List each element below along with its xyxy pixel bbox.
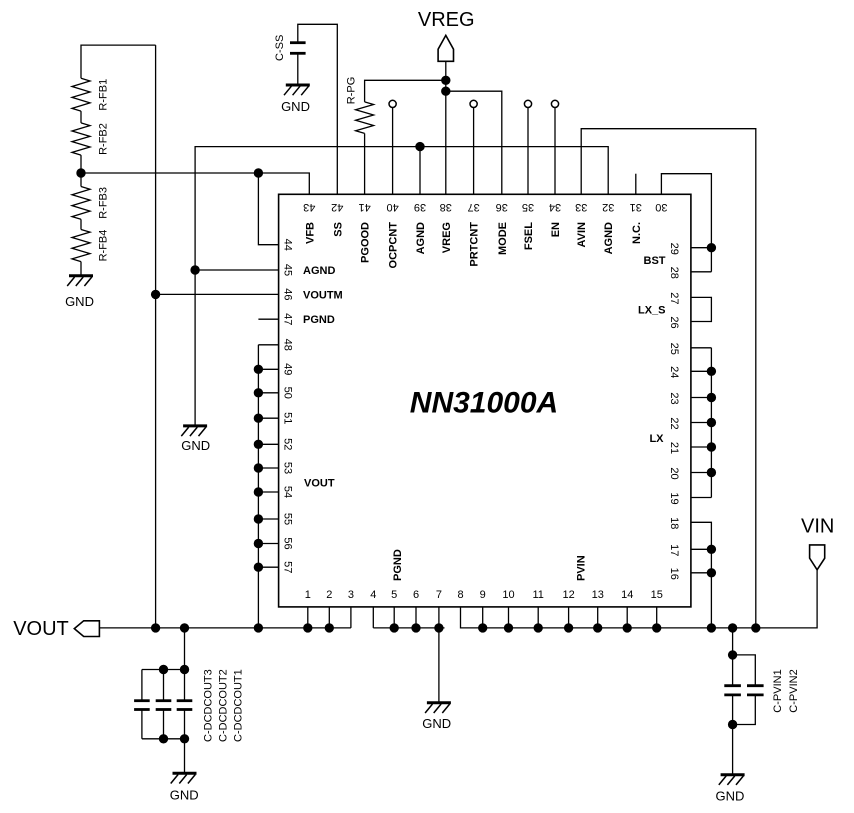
svg-text:32: 32 — [602, 201, 614, 213]
wire C-DCDCOUT bank to ground — [184, 739, 186, 774]
wire VOUT vertical feed (node VOUT riser) — [155, 45, 157, 628]
resistor R-FB2 — [72, 123, 90, 155]
svg-text:41: 41 — [358, 201, 370, 213]
wire pin 46 VOUTM to VOUT riser — [156, 293, 279, 295]
junction: pin 2 / VOUT rail — [325, 624, 333, 632]
svg-text:GND: GND — [170, 787, 199, 802]
svg-text:PGND: PGND — [303, 314, 335, 326]
wire R-PG top to VREG node — [365, 80, 446, 102]
wire pin 17 stub — [691, 548, 712, 550]
wire C-SS bottom to ground — [297, 53, 299, 85]
svg-text:25: 25 — [668, 343, 680, 355]
terminal VREG (supply flag) — [438, 35, 453, 61]
wire C-PVIN2 bottom bracket — [733, 695, 756, 725]
wire pin 34 EN stub — [554, 108, 556, 195]
svg-text:SS: SS — [332, 222, 344, 237]
wire pin 3 drop to VOUT rail — [350, 607, 352, 628]
svg-text:C-SS: C-SS — [274, 35, 286, 61]
svg-text:45: 45 — [282, 264, 294, 276]
open terminal circle above pin 37 PRTCNT — [470, 100, 477, 107]
wire VREG terminal down to pin 38 VREG — [445, 61, 447, 194]
wire pin 25 LX stub — [691, 347, 712, 349]
wire pin 41 PGOOD up to R-PG — [364, 133, 366, 194]
wire VOUT rail (terminal to pin 3) — [99, 627, 351, 629]
svg-text:50: 50 — [282, 387, 294, 399]
svg-text:N.C.: N.C. — [631, 222, 643, 244]
wire pin 39 AGND drop from AGND run — [419, 147, 421, 195]
junction: pin 11 / PVIN rail — [534, 624, 542, 632]
junction: pin 5 / PGND rail — [390, 624, 398, 632]
junction: VREG / MODE branch — [442, 87, 450, 95]
wire pin 24 LX stub — [691, 370, 712, 372]
svg-text:VOUTM: VOUTM — [303, 289, 343, 301]
svg-text:57: 57 — [282, 561, 294, 573]
svg-text:17: 17 — [668, 544, 680, 556]
svg-text:GND: GND — [65, 294, 94, 309]
junction: pin 56 / VOUT bus — [254, 539, 262, 547]
wire pin 56 VOUT stub — [258, 543, 278, 545]
junction: C-PVIN2 branch top — [728, 651, 736, 659]
junction: VOUT riser / VOUT rail — [151, 624, 159, 632]
svg-text:R-FB3: R-FB3 — [97, 187, 109, 219]
svg-text:15: 15 — [651, 589, 663, 601]
svg-text:29: 29 — [668, 243, 680, 255]
junction: VOUTM / VOUT riser — [151, 290, 159, 298]
svg-text:11: 11 — [532, 589, 543, 601]
svg-text:3: 3 — [348, 589, 354, 601]
wire PGND rail (pins 4-7) — [373, 627, 444, 629]
wire VOUT rail down to C-DCDCOUT bank — [184, 628, 186, 670]
junction: pin 16 / PVIN stub bus — [707, 569, 715, 577]
capacitor C-PVIN2 — [747, 684, 764, 687]
svg-text:23: 23 — [668, 392, 680, 404]
svg-text:VOUT: VOUT — [304, 478, 335, 490]
resistor R-FB4 — [72, 230, 90, 262]
junction: pin 51 / VOUT bus — [254, 414, 262, 422]
svg-text:9: 9 — [480, 589, 486, 601]
wire pin 48 VOUT stub — [258, 344, 278, 346]
wire pin 33 AVIN up-right and down to VIN rail — [581, 129, 756, 628]
wire pin 29 stub to BST bus — [691, 247, 712, 249]
svg-text:LX_S: LX_S — [638, 305, 666, 317]
svg-text:C-DCDCOUT3: C-DCDCOUT3 — [203, 669, 215, 742]
svg-text:VFB: VFB — [304, 222, 316, 244]
junction: pin 20 / LX bus — [707, 468, 715, 476]
open terminal circle above pin 40 OCPCNT — [389, 100, 396, 107]
wire pin 13 drop to PVIN rail — [597, 607, 599, 628]
svg-text:24: 24 — [668, 366, 680, 378]
ground under C-DCDCOUT bank — [173, 772, 197, 775]
junction: pin 21 / LX bus — [707, 443, 715, 451]
open terminal circle above pin 34 EN — [551, 100, 558, 107]
svg-text:AVIN: AVIN — [576, 222, 588, 248]
junction: C-DCDCOUT feed / VOUT rail — [180, 624, 188, 632]
wire VIN rail down to C-PVIN pair — [732, 628, 734, 686]
junction: pin 44 bracket / VFB line — [254, 169, 262, 177]
wire C-PVIN1 bottom to ground — [732, 695, 734, 775]
capacitor C-DCDCOUT1 (right column) — [184, 670, 186, 701]
svg-text:AGND: AGND — [603, 222, 615, 254]
junction: pin 29 / BST bus — [707, 244, 715, 252]
svg-text:48: 48 — [282, 339, 294, 351]
svg-text:C-DCDCOUT1: C-DCDCOUT1 — [233, 669, 245, 742]
junction: pin 10 / PVIN rail — [504, 624, 512, 632]
svg-text:52: 52 — [282, 438, 294, 450]
junction: C-PVIN feed / PVIN rail — [728, 624, 736, 632]
svg-text:8: 8 — [457, 589, 463, 601]
terminal VOUT (output flag) — [74, 621, 99, 637]
svg-text:VREG: VREG — [441, 222, 453, 253]
capacitor C-PVIN1 — [724, 684, 741, 687]
wire top of R-FB1 to VOUT vertical feed — [81, 45, 156, 78]
svg-text:40: 40 — [386, 201, 398, 213]
wire R-FB4 to ground — [80, 262, 82, 276]
wire pin 20 LX stub — [691, 472, 712, 474]
wire pin 45 AGND to AGND riser — [195, 269, 279, 271]
junction: pin 6 / PGND rail — [412, 624, 420, 632]
svg-text:54: 54 — [282, 486, 294, 498]
svg-text:26: 26 — [668, 316, 680, 328]
svg-text:R-FB2: R-FB2 — [97, 123, 109, 155]
IC U1 NN31000A body outline — [279, 194, 691, 607]
wire pin 55 VOUT stub — [258, 518, 278, 520]
wire pin 6 drop to PGND rail — [415, 607, 417, 628]
wire pin 40 OCPCNT stub — [392, 108, 394, 195]
wire C-PVIN2 top bracket — [733, 655, 756, 686]
junction: C-DCDCOUT1 bottom — [180, 735, 188, 743]
wire pin 9 drop to PVIN rail — [482, 607, 484, 628]
junction: pins 16-18 stub bus / PVIN rail — [707, 624, 715, 632]
svg-text:EN: EN — [550, 222, 562, 237]
junction: pin 49 / VOUT bus — [254, 365, 262, 373]
junction: feedback tap on R-FB2/R-FB3 divider — [77, 169, 85, 177]
svg-text:GND: GND — [281, 99, 310, 114]
svg-text:22: 22 — [668, 417, 680, 429]
junction: pin 7 / PGND rail — [435, 624, 443, 632]
wire pin 51 VOUT stub — [258, 417, 278, 419]
svg-text:34: 34 — [549, 201, 561, 213]
terminal VIN (supply flag) — [810, 545, 825, 570]
svg-text:20: 20 — [668, 467, 680, 479]
svg-text:2: 2 — [326, 589, 332, 601]
wire pin 12 drop to PVIN rail — [568, 607, 570, 628]
wire pin 50 VOUT stub — [258, 392, 278, 394]
wire pin 54 VOUT stub — [258, 491, 278, 493]
wire pin 43 VFB up-left to feedback node (R-FB2/R-FB3 tap line) — [81, 173, 309, 194]
svg-text:GND: GND — [715, 788, 744, 803]
wire R-FB1 to R-FB2 — [80, 111, 82, 123]
wire pin 27 LX_S stub and loop to pin 26 — [691, 297, 712, 321]
svg-text:C-DCDCOUT2: C-DCDCOUT2 — [218, 669, 230, 742]
wire pin 4 drop to PGND rail — [372, 607, 374, 628]
svg-text:39: 39 — [414, 201, 426, 213]
capacitor C-DCDCOUT2 (middle column) — [163, 670, 165, 701]
svg-text:4: 4 — [370, 589, 376, 601]
svg-text:53: 53 — [282, 462, 294, 474]
ground at bottom of AGND riser — [183, 424, 207, 427]
svg-text:47: 47 — [282, 313, 294, 325]
svg-text:31: 31 — [630, 201, 642, 213]
svg-text:5: 5 — [391, 589, 397, 601]
wire pin 21 LX stub — [691, 446, 712, 448]
junction: pin 53 / VOUT bus — [254, 464, 262, 472]
wire pin 57 VOUT stub — [258, 566, 278, 568]
svg-text:18: 18 — [668, 517, 680, 529]
junction: C-DCDCOUT2 bottom — [159, 735, 167, 743]
svg-text:12: 12 — [562, 589, 574, 601]
junction: pin 39 AGND / AGND run — [416, 142, 424, 150]
svg-text:21: 21 — [668, 442, 680, 454]
wire R-FB3 to R-FB4 — [80, 219, 82, 229]
wire C-SS top to pin 42 SS — [298, 24, 338, 194]
junction: AVIN riser / PVIN rail — [752, 624, 760, 632]
wire pin 49 VOUT stub — [258, 368, 278, 370]
svg-text:7: 7 — [436, 589, 442, 601]
svg-text:GND: GND — [181, 438, 210, 453]
svg-text:36: 36 — [496, 201, 508, 213]
svg-text:R-PG: R-PG — [346, 77, 358, 105]
svg-text:35: 35 — [522, 201, 534, 213]
svg-text:C-PVIN1: C-PVIN1 — [772, 669, 784, 712]
junction: pin 12 / PVIN rail — [564, 624, 572, 632]
wire VREG node to pin 36 MODE — [446, 91, 502, 194]
svg-text:46: 46 — [282, 288, 294, 300]
junction: pin 24 / LX bus — [707, 367, 715, 375]
junction: C-DCDCOUT2 top — [159, 665, 167, 673]
junction: pin 17 / PVIN stub bus — [707, 545, 715, 553]
wire pin 14 drop to PVIN rail — [626, 607, 628, 628]
wire pin 7 drop through PGND rail to ground — [438, 607, 440, 703]
svg-text:55: 55 — [282, 513, 294, 525]
wire pin 37 PRTCNT stub — [473, 108, 475, 195]
wire pin 52 VOUT stub — [258, 443, 278, 445]
svg-text:30: 30 — [655, 201, 667, 213]
capacitor C-DCDCOUT3 (left column) — [141, 670, 143, 701]
junction: pin 57 / VOUT bus — [254, 563, 262, 571]
svg-text:PRTCNT: PRTCNT — [469, 222, 481, 267]
svg-text:14: 14 — [621, 589, 633, 601]
svg-text:38: 38 — [440, 201, 452, 213]
wire VOUT pin bus vertical (pins 48-57) down to VOUT rail — [257, 345, 259, 628]
junction: VREG / R-PG branch — [442, 76, 450, 84]
wire pin 35 FSEL stub — [527, 108, 529, 195]
wire pin 19 LX stub — [691, 497, 712, 499]
wire pins 16-18 PVIN stub bus down to VIN rail — [691, 522, 712, 628]
svg-text:R-FB4: R-FB4 — [97, 230, 109, 262]
junction: pin 14 / PVIN rail — [623, 624, 631, 632]
ground under pin 7 PGND — [427, 701, 451, 704]
junction: C-DCDCOUT1 top — [180, 665, 188, 673]
wire AGND net: ground riser, horizontal run, drop to pin 32 AGND — [195, 147, 608, 426]
wire pin 10 drop to PVIN rail — [508, 607, 510, 628]
svg-text:51: 51 — [282, 412, 294, 424]
svg-text:LX: LX — [649, 433, 664, 445]
svg-text:49: 49 — [282, 363, 294, 375]
wire C-DCDCOUT bottom bus — [142, 738, 185, 740]
wire R-FB2 to R-FB3 (through feedback tap) — [80, 155, 82, 186]
resistor R-PG — [356, 102, 374, 133]
wire pin 11 drop to PVIN rail — [537, 607, 539, 628]
svg-text:FSEL: FSEL — [523, 222, 535, 250]
svg-text:42: 42 — [331, 201, 343, 213]
wire pin 44 bracket to VFB line — [258, 173, 278, 245]
svg-text:AGND: AGND — [415, 222, 427, 254]
svg-text:13: 13 — [592, 589, 604, 601]
resistor R-FB3 — [72, 187, 90, 220]
junction: pin 52 / VOUT bus — [254, 440, 262, 448]
wire pin 22 LX stub — [691, 422, 712, 424]
svg-text:56: 56 — [282, 537, 294, 549]
svg-text:OCPCNT: OCPCNT — [388, 222, 400, 269]
junction: pin 50 / VOUT bus — [254, 389, 262, 397]
svg-text:PGND: PGND — [392, 549, 404, 581]
svg-text:10: 10 — [502, 589, 514, 601]
svg-text:1: 1 — [305, 589, 311, 601]
resistor R-FB1 — [72, 78, 90, 111]
junction: pin 9 / PVIN rail — [479, 624, 487, 632]
wire pin 16 stub — [691, 572, 712, 574]
wire pin 5 drop to PGND rail — [393, 607, 395, 628]
svg-text:VIN: VIN — [801, 515, 834, 537]
wire pin 1 drop to VOUT rail — [307, 607, 309, 628]
svg-text:NN31000A: NN31000A — [410, 387, 558, 420]
svg-text:33: 33 — [575, 201, 587, 213]
junction: pin 15 / PVIN rail — [653, 624, 661, 632]
svg-text:PVIN: PVIN — [576, 555, 588, 581]
ground under R-FB4 — [69, 274, 93, 277]
svg-text:MODE: MODE — [497, 222, 509, 255]
junction: pin 13 / PVIN rail — [594, 624, 602, 632]
junction: pin 1 / VOUT rail — [304, 624, 312, 632]
junction: pin 22 / LX bus — [707, 418, 715, 426]
svg-text:VOUT: VOUT — [13, 618, 69, 640]
svg-text:R-FB1: R-FB1 — [97, 79, 109, 111]
ground under C-SS — [286, 84, 310, 87]
wire PVIN rail (pin 8 to VIN terminal) — [461, 570, 818, 628]
junction: C-PVIN2 branch bottom — [728, 720, 736, 728]
capacitor C-SS — [290, 41, 306, 44]
svg-text:43: 43 — [303, 201, 315, 213]
svg-text:44: 44 — [282, 239, 294, 251]
wire pin 2 drop to VOUT rail — [328, 607, 330, 628]
open terminal circle above pin 35 FSEL — [524, 100, 531, 107]
junction: pin 54 / VOUT bus — [254, 488, 262, 496]
svg-text:6: 6 — [413, 589, 419, 601]
wire pin 15 drop to PVIN rail — [656, 607, 658, 628]
svg-text:19: 19 — [668, 492, 680, 504]
wire pin 53 VOUT stub — [258, 467, 278, 469]
svg-text:C-PVIN2: C-PVIN2 — [788, 669, 800, 712]
svg-text:28: 28 — [668, 267, 680, 279]
wire pin 31 N.C. stub — [635, 174, 637, 195]
junction: VOUT pin bus / VOUT rail — [254, 624, 262, 632]
wire C-DCDCOUT top bus — [142, 669, 185, 671]
svg-text:VREG: VREG — [418, 9, 475, 31]
svg-text:PGOOD: PGOOD — [360, 222, 372, 263]
junction: pin 45 AGND / AGND riser — [191, 266, 199, 274]
wire pin 28 BST stub to BST bus — [691, 271, 712, 273]
ground under C-PVIN pair — [721, 773, 745, 776]
junction: pin 23 / LX bus — [707, 393, 715, 401]
svg-text:AGND: AGND — [303, 265, 335, 277]
svg-text:BST: BST — [644, 255, 666, 267]
wire pin 47 PGND stub (unconnected) — [258, 318, 278, 320]
wire pin 30 up-right to BST bus — [661, 174, 711, 272]
svg-text:37: 37 — [467, 201, 479, 213]
wire LX bus vertical (pins 19-25) — [710, 348, 712, 498]
junction: pin 55 / VOUT bus — [254, 515, 262, 523]
svg-text:27: 27 — [668, 292, 680, 304]
svg-text:16: 16 — [668, 568, 680, 580]
svg-text:GND: GND — [422, 716, 451, 731]
wire pin 23 LX stub — [691, 397, 712, 399]
